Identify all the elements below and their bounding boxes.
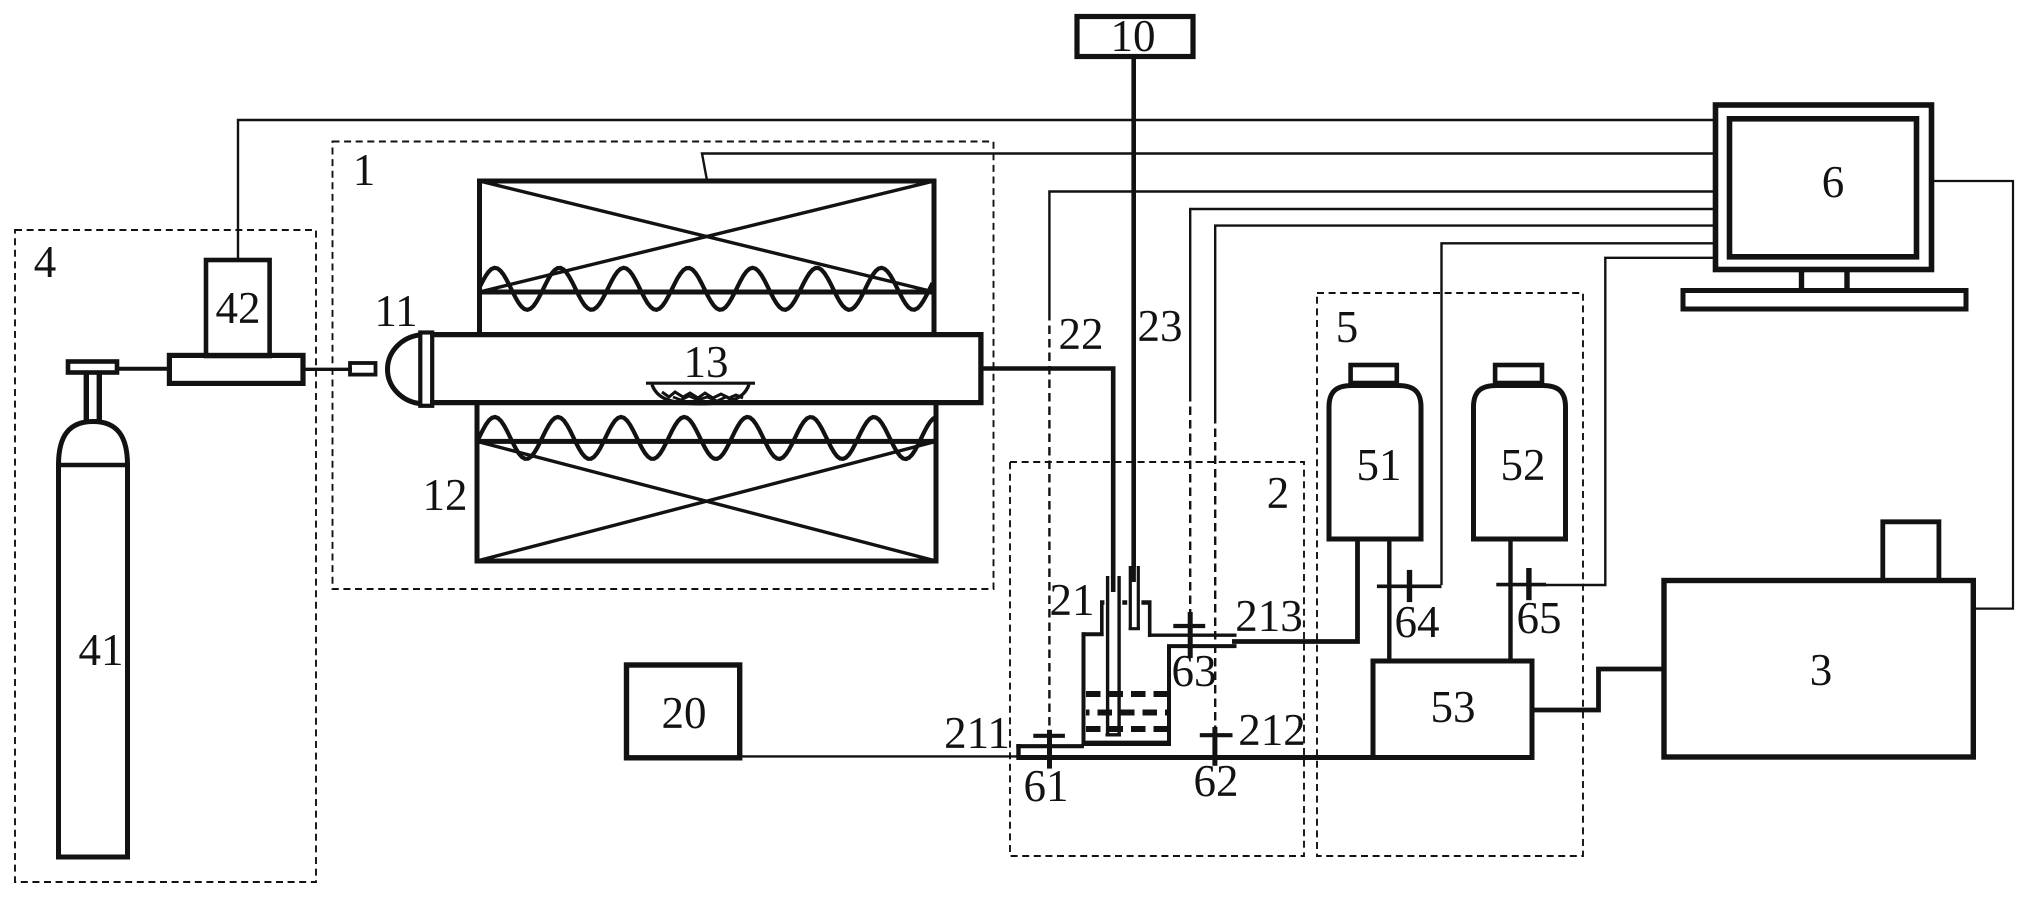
cell 21 bottom (1082, 741, 1172, 746)
sample boat 13 bowl (652, 385, 749, 404)
sample boat 13 rim (646, 382, 755, 385)
cell inlet link (1016, 744, 1020, 757)
cylinder valve cap (68, 362, 117, 373)
box 53 (analyzer) (1373, 661, 1532, 758)
upper heater block diagonal 1 (480, 181, 935, 292)
cylinder 41 shoulder line (56, 463, 130, 467)
cell 21 outer left wall (1082, 632, 1086, 745)
valve 62 bar (1200, 733, 1233, 737)
monitor pedestal left (1799, 272, 1804, 291)
svg-text:211: 211 (944, 708, 1010, 758)
valve 63 bar (1173, 624, 1205, 628)
valve 64 bar (1377, 584, 1442, 588)
valve 63 stem (1188, 612, 1193, 658)
lower block left wall extension (475, 401, 480, 441)
upper block left wall extension (477, 292, 482, 336)
box 10 (power source) (1077, 17, 1193, 57)
electrode 23 tip (1131, 566, 1135, 582)
cell 21 outer right wall (1167, 644, 1171, 745)
wire: monitor 6 to valve 65 (bus line 7) (1545, 258, 1714, 585)
lower heater block 12: rectangle (477, 441, 936, 561)
sample in boat 13 (662, 392, 743, 398)
upper heating coil (wave) (480, 268, 933, 310)
svg-text:65: 65 (1517, 593, 1562, 643)
valve 64 tick (1407, 570, 1412, 602)
tube 11 left end cap (dome) (387, 335, 420, 404)
svg-text:5: 5 (1336, 302, 1359, 352)
valve 61 stem (1047, 730, 1052, 769)
cylinder neck (86, 371, 99, 422)
svg-text:10: 10 (1111, 11, 1156, 61)
pipe: bottle 51 to box 53 (1387, 539, 1391, 661)
outlet duct 213 bottom wall (1171, 644, 1237, 648)
svg-text:22: 22 (1059, 309, 1104, 359)
tube 11 flange (420, 333, 432, 406)
svg-text:1: 1 (353, 145, 376, 195)
wire: monitor 6 to valve 61 (bus line 3, solid part) (1049, 192, 1714, 313)
wire: monitor 6 to valve 63 (dashed part) (1189, 393, 1191, 613)
svg-text:53: 53 (1431, 682, 1476, 732)
lower heater block diagonal 1 (477, 441, 936, 561)
dashed box 5 (gas bottle unit) (1317, 293, 1583, 856)
svg-text:213: 213 (1235, 591, 1303, 641)
wire: furnace heater to monitor 6 (bus line 2) (702, 154, 1714, 181)
bottle 51 cap (1351, 365, 1397, 383)
svg-text:23: 23 (1138, 301, 1183, 351)
lower heater block diagonal 2 (477, 441, 936, 561)
pipe: cylinder valve to controller 42 (117, 367, 171, 371)
svg-text:13: 13 (684, 337, 729, 387)
wire: monitor 6 to valve 62 (bus line 5, solid part) (1215, 226, 1714, 415)
svg-text:63: 63 (1172, 646, 1217, 696)
svg-text:64: 64 (1395, 597, 1440, 647)
cell inlet bar (1016, 744, 1084, 748)
pipe: bottle 52 to box 53 (1508, 539, 1512, 661)
main pipe: junction to box 53 (1016, 755, 1373, 760)
outlet duct 213 top wall (1152, 634, 1237, 637)
pipe: box 53 to box 3 (1532, 669, 1662, 710)
cell 21 neck left wall (1100, 601, 1104, 637)
svg-text:12: 12 (423, 470, 468, 520)
box 3 (gas chromatograph) (1664, 581, 1973, 758)
svg-text:11: 11 (374, 286, 417, 336)
lower block right wall extension (934, 401, 939, 441)
cell 21 neck top edge (1100, 600, 1152, 604)
svg-text:212: 212 (1238, 705, 1306, 755)
bottle 52 body (1474, 386, 1566, 540)
valve 65 tick (1526, 568, 1531, 600)
electrolyte level dashes row 2 (1086, 710, 1167, 716)
dashed box 4 (gas supply unit) (15, 230, 316, 882)
cell 21 left step (1082, 632, 1104, 636)
svg-text:2: 2 (1267, 468, 1290, 518)
svg-text:42: 42 (216, 283, 261, 333)
box 42 (flow controller) (206, 260, 270, 356)
electrode 22 tip (1111, 576, 1116, 592)
svg-text:3: 3 (1810, 645, 1833, 695)
svg-text:61: 61 (1024, 761, 1069, 811)
monitor base (1683, 291, 1966, 310)
wire: monitor 6 to box 3 (right side) (1931, 181, 2013, 609)
quartz tube 11 body (430, 335, 981, 403)
wire: monitor 6 to valve 61 (dashed part) (1048, 312, 1050, 731)
monitor 6 outer frame (1716, 105, 1932, 270)
svg-text:21: 21 (1050, 575, 1095, 625)
svg-text:4: 4 (34, 237, 57, 287)
pipe 213: cell to bottle 51 (1232, 538, 1358, 642)
svg-text:20: 20 (662, 688, 707, 738)
monitor pedestal right (1844, 272, 1849, 291)
upper heater block 12a: rectangle (480, 181, 935, 292)
valve 61 bar (1033, 734, 1065, 738)
wire: monitor 6 to valve 63 (bus line 4, solid part) (1190, 209, 1714, 393)
svg-text:51: 51 (1357, 440, 1402, 490)
valve 65 bar (1496, 583, 1546, 587)
pipe 22: tube outlet to cell (981, 369, 1113, 581)
monitor 6 screen (1730, 119, 1917, 257)
dashed box 1 (tube furnace unit) (333, 142, 994, 590)
bottle 52 cap (1495, 365, 1542, 383)
wire: box 42 to monitor 6 (bus line 1) (238, 120, 1714, 260)
gas cylinder 41 body (59, 422, 128, 858)
svg-text:62: 62 (1194, 756, 1239, 806)
lower heating coil (wave) (477, 417, 936, 459)
wire: monitor 6 to valve 62 (dashed part) (1214, 415, 1216, 734)
tube inlet stub (350, 363, 376, 375)
small box on top of 3 (1883, 522, 1939, 580)
pipe: box 20 to junction (thin) (742, 755, 1018, 757)
mass flow controller base (169, 355, 303, 383)
bottle 51 body (1329, 386, 1421, 540)
svg-text:41: 41 (79, 625, 124, 675)
electrolyte level dashes row 3 (1086, 726, 1167, 732)
dashed box 2 (electrolysis cell unit) (1010, 462, 1304, 856)
wire: monitor 6 to valve 64 (bus line 6) (1442, 243, 1715, 585)
electrode sheath for 23 (thermocouple) (1127, 567, 1141, 630)
upper block right wall extension (932, 292, 937, 336)
pipe: controller base to tube inlet (303, 368, 352, 371)
wire 23: box 10 to electrode sheath (1131, 56, 1136, 576)
cell 21 neck right wall (1148, 601, 1152, 638)
svg-text:52: 52 (1501, 440, 1546, 490)
upper heater block diagonal 2 (480, 181, 935, 292)
electrode sheath for 22 (1104, 578, 1122, 739)
valve 62 stem (1212, 727, 1217, 766)
svg-text:6: 6 (1822, 157, 1845, 207)
electrolyte level dashes row 1 (1086, 691, 1167, 697)
box 20 (pump) (627, 665, 740, 758)
